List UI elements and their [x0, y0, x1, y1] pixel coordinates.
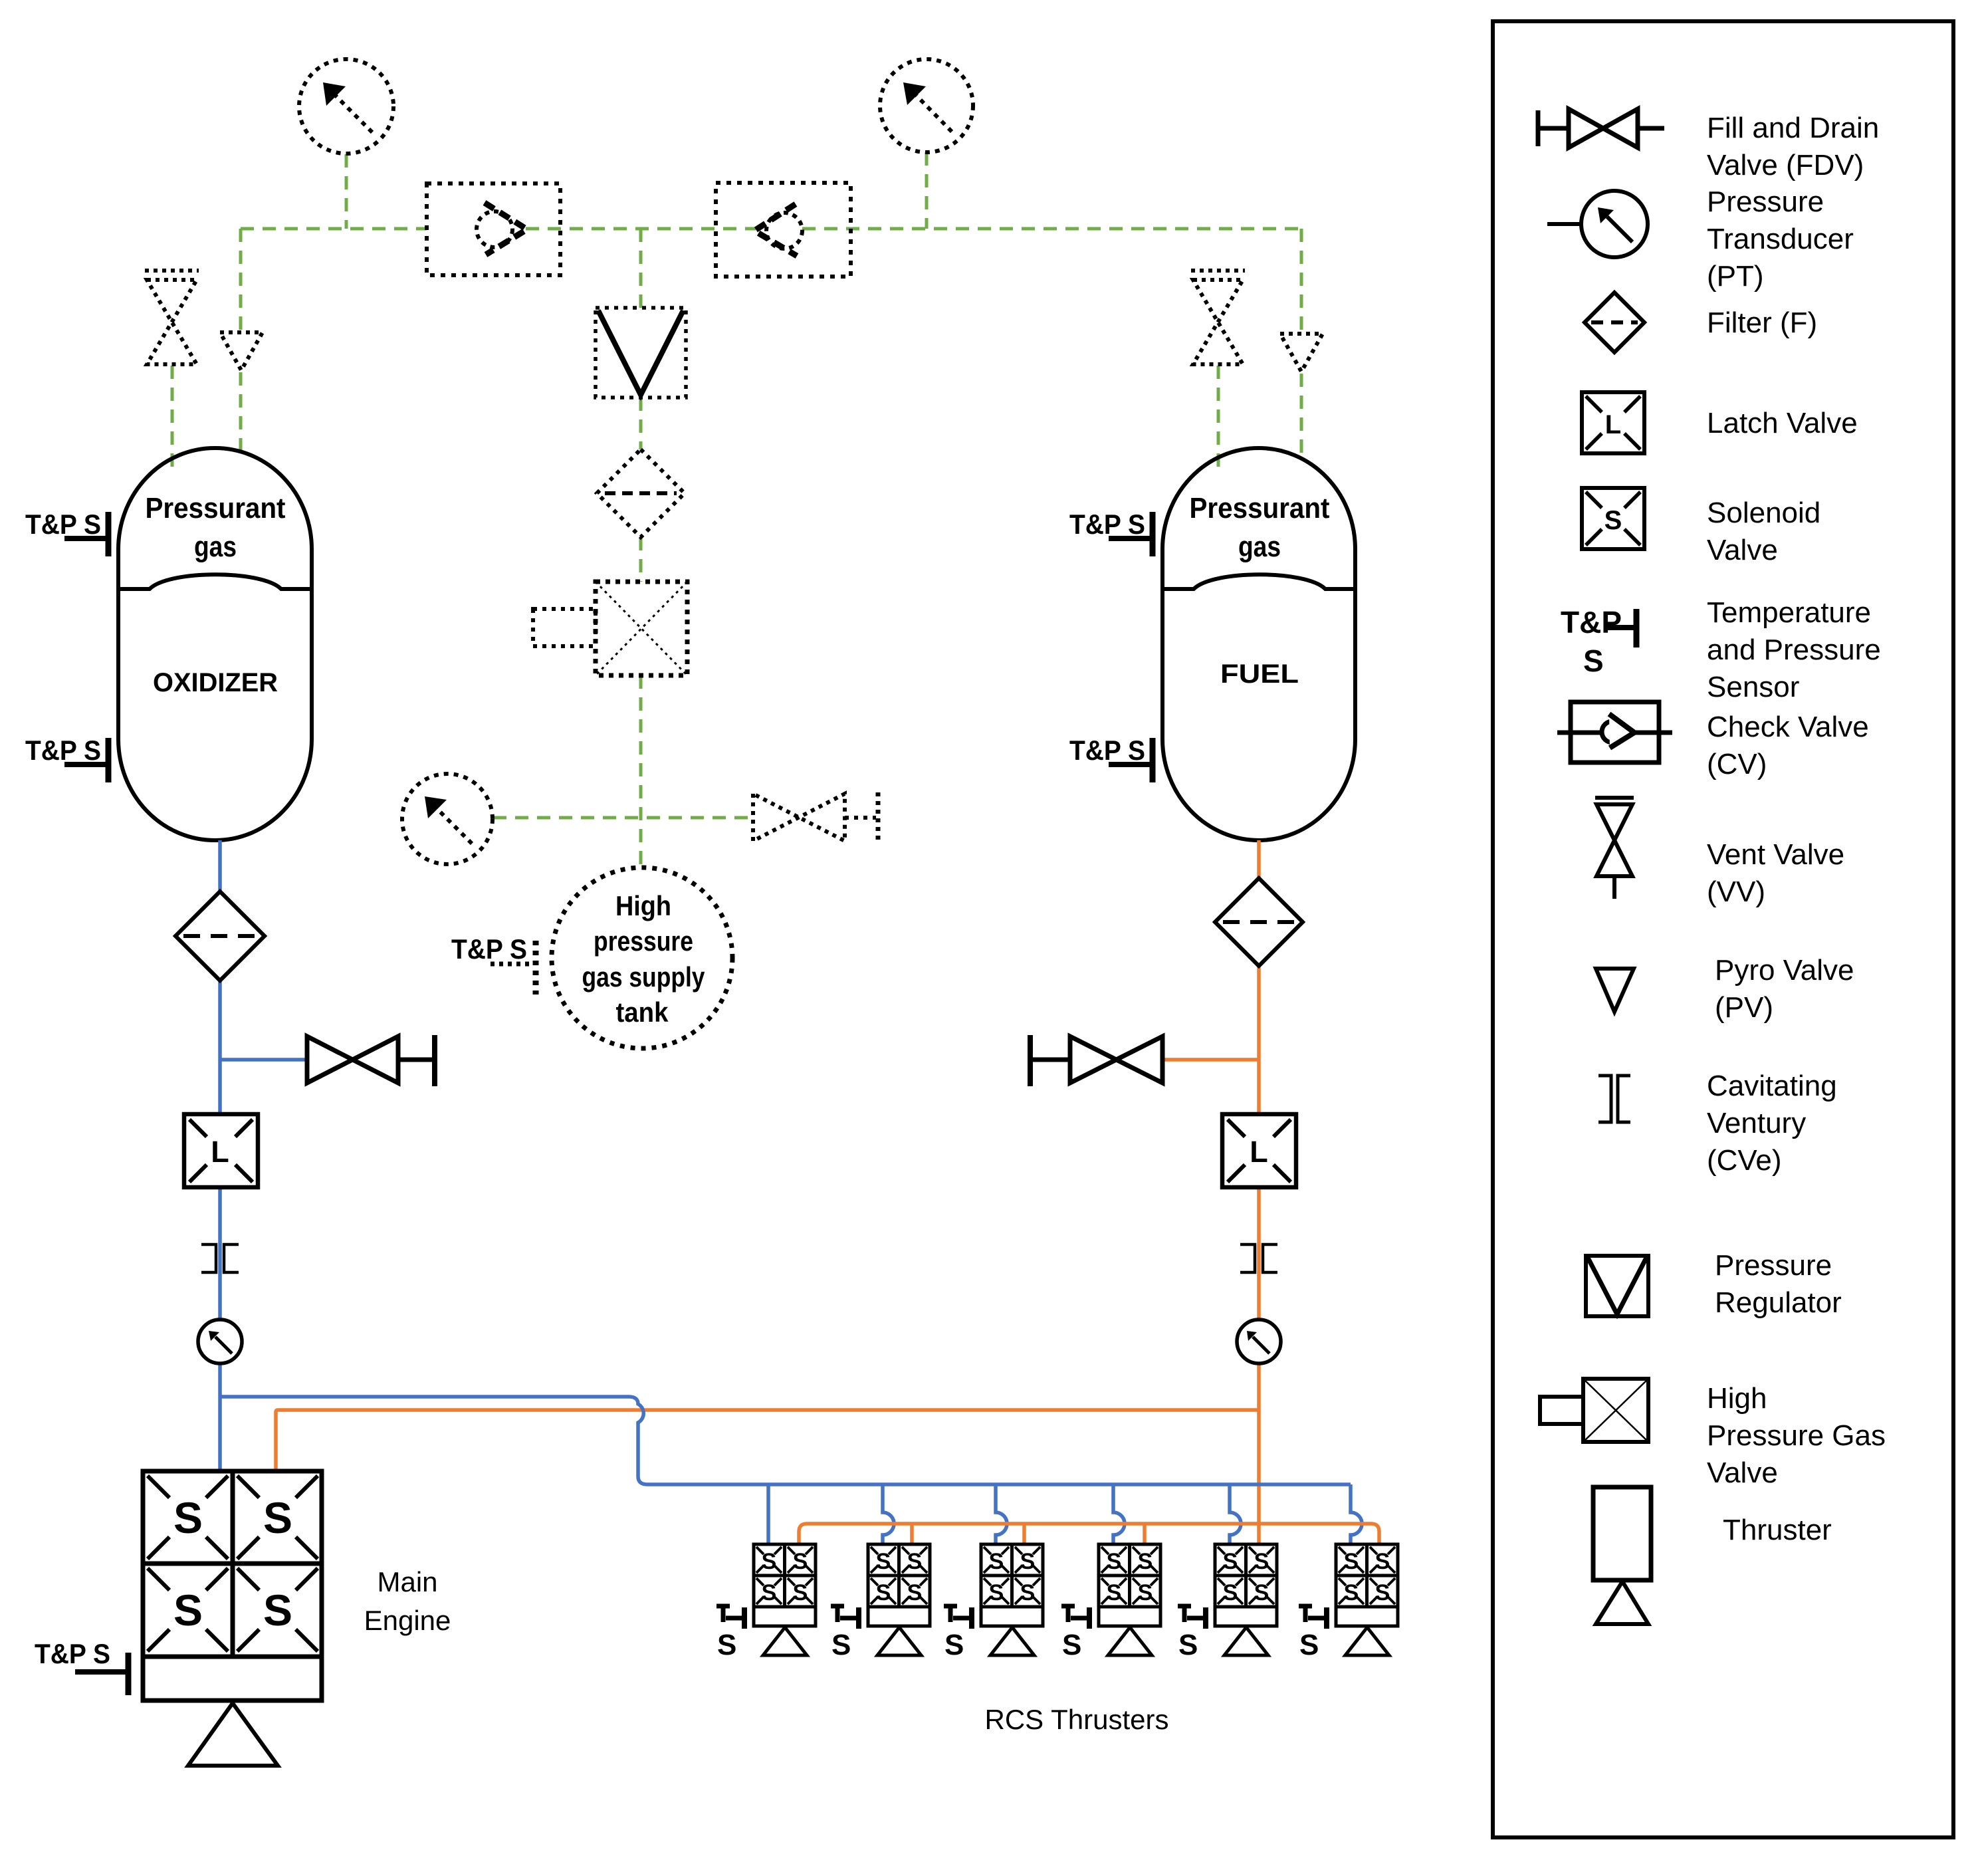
svg-text:Fill and Drain: Fill and Drain — [1707, 112, 1879, 144]
check valve CV1 (dotted box, arrow apex right) — [427, 183, 560, 275]
wire green filter F3 to high pressure gas valve — [639, 537, 643, 582]
high pressure gas supply tank (dotted circle) — [552, 868, 732, 1048]
svg-text:S: S — [793, 1580, 808, 1605]
legend symbol: pyro valve — [1596, 969, 1634, 1012]
svg-text:Main: Main — [377, 1566, 437, 1597]
svg-text:S: S — [989, 1580, 1004, 1605]
wire green HPGV down to supply tank — [639, 675, 643, 868]
wire green regulator to filter F3 — [639, 398, 643, 449]
wire orange manifold right elbow drop to cluster 6 — [1371, 1524, 1379, 1544]
svg-text:S: S — [907, 1580, 923, 1605]
TOPCOMP — [145, 59, 1323, 1048]
wire green left elbow down to pyro valve PV1 — [239, 229, 243, 330]
wire blue drop to thruster cluster 2 (hop over orange manifold) — [883, 1484, 894, 1544]
svg-text:T&P S: T&P S — [451, 933, 527, 965]
svg-text:Ventury: Ventury — [1707, 1107, 1806, 1139]
svg-text:S: S — [831, 1629, 851, 1661]
filter F1 (oxidizer) — [175, 891, 265, 981]
svg-text:(PV): (PV) — [1715, 991, 1773, 1024]
fill and drain valve FDV1 (oxidizer) — [307, 1035, 435, 1086]
svg-text:S: S — [1138, 1549, 1153, 1574]
T&P sensor cluster 4 — [1061, 1606, 1089, 1661]
svg-text:High: High — [1707, 1382, 1767, 1415]
svg-text:L: L — [1250, 1135, 1268, 1169]
svg-text:S: S — [876, 1580, 891, 1605]
latch valve L2 — [1222, 1114, 1296, 1187]
wire green PT1 drop — [345, 154, 348, 229]
wire orange drop to cluster 4 — [1143, 1524, 1147, 1544]
label: Main Engine — [364, 1566, 451, 1636]
svg-text:Pressurant: Pressurant — [1190, 492, 1330, 525]
high pressure gas valve (dotted box with X and stub) — [533, 582, 687, 675]
main engine lower plate — [143, 1657, 322, 1700]
svg-text:L: L — [1605, 410, 1621, 439]
legend text: Vent Valve (VV) — [1707, 838, 1844, 908]
svg-text:Latch Valve: Latch Valve — [1707, 407, 1858, 439]
cavitating venturi CVe2 — [1240, 1244, 1277, 1272]
svg-text:tank: tank — [616, 997, 669, 1028]
svg-text:S: S — [1254, 1580, 1269, 1605]
TANKS — [25, 448, 1355, 840]
svg-text:Filter (F): Filter (F) — [1707, 306, 1817, 339]
legend symbol: thruster — [1593, 1487, 1651, 1624]
wire blue drop to thruster cluster 6 (hop over orange manifold) — [1351, 1484, 1362, 1544]
T&P sensor cluster 1 — [716, 1606, 744, 1661]
wire orange filter F2 to latch valve L2 — [1257, 966, 1261, 1114]
main engine solenoid letters S — [173, 1493, 292, 1635]
svg-text:S: S — [263, 1585, 292, 1635]
legend symbol: check valve — [1557, 702, 1672, 762]
svg-text:Valve: Valve — [1707, 534, 1778, 566]
main engine solenoid corner marks cell bottom-left — [148, 1568, 228, 1651]
vent valve VV2 (dotted, above fuel tank) — [1191, 271, 1245, 364]
svg-text:S: S — [173, 1585, 203, 1635]
LEGEND — [1493, 21, 1953, 1837]
svg-text:gas: gas — [194, 530, 237, 563]
wire blue drop to thruster cluster 5 (hop over orange manifold) — [1230, 1484, 1241, 1544]
legend symbol: solenoid valve — [1582, 488, 1644, 549]
pressure transducer PT1 (dotted, top left) — [299, 59, 393, 154]
oxidizer tank shell — [118, 448, 312, 840]
legend border frame — [1493, 21, 1953, 1837]
svg-text:S: S — [1178, 1629, 1198, 1661]
svg-text:S: S — [173, 1493, 203, 1542]
svg-text:Thruster: Thruster — [1723, 1514, 1832, 1546]
legend symbol: cavitating venturi — [1598, 1076, 1630, 1122]
wire green PT2 drop — [925, 152, 929, 229]
main engine solenoid corner marks cell bottom-right — [237, 1568, 318, 1651]
fill and drain valve FDV2 (fuel) — [1030, 1035, 1162, 1086]
wire green supply-tank cross horizontal — [493, 816, 753, 820]
svg-text:S: S — [1254, 1549, 1269, 1574]
svg-text:Valve: Valve — [1707, 1457, 1778, 1489]
svg-text:Pyro Valve: Pyro Valve — [1715, 954, 1854, 987]
wire green vent VV2 to fuel tank — [1217, 366, 1220, 467]
wire green right elbow down to pyro valve PV2 — [1300, 229, 1303, 332]
T&P sensor fuel lower — [1069, 735, 1153, 782]
svg-text:Pressure: Pressure — [1707, 185, 1824, 218]
svg-text:L: L — [211, 1135, 229, 1169]
wire blue filter F1 to latch valve L1 — [218, 981, 222, 1114]
legend symbol: latch valve — [1582, 392, 1644, 453]
RCS thruster cluster 2 valve block — [868, 1544, 930, 1655]
legend symbol: pressure transducer — [1547, 191, 1648, 257]
legend text: Fill and Drain Valve (FDV) — [1707, 112, 1879, 181]
svg-text:Transducer: Transducer — [1707, 223, 1854, 255]
filter F3 (dotted diamond on pressurant line) — [597, 449, 685, 537]
main engine solenoid corner marks cell top-left — [148, 1476, 228, 1559]
svg-text:Sensor: Sensor — [1707, 671, 1799, 703]
legend text: Cavitating Ventury (CVe) — [1707, 1070, 1837, 1177]
svg-text:Cavitating: Cavitating — [1707, 1070, 1837, 1102]
wire green vent VV1 to oxidizer tank — [171, 366, 174, 467]
svg-text:Regulator: Regulator — [1715, 1286, 1842, 1319]
temperature and pressure sensor (dotted) on supply tank — [451, 933, 536, 995]
pressure transducer PT3 (dotted, near supply tank) — [402, 774, 493, 864]
legend text: Pressure Regulator — [1715, 1249, 1842, 1319]
svg-text:S: S — [1223, 1580, 1238, 1605]
RCS thruster cluster 1 valve block — [754, 1544, 816, 1655]
vent valve VV1 (dotted, above oxidizer tank) — [145, 271, 199, 364]
RCS thruster cluster 4 valve block — [1099, 1544, 1160, 1655]
cavitating venturi CVe1 — [201, 1244, 239, 1272]
svg-text:S: S — [263, 1493, 292, 1542]
svg-text:S: S — [876, 1549, 891, 1574]
svg-text:T&P S: T&P S — [25, 735, 101, 766]
svg-text:S: S — [1107, 1580, 1122, 1605]
label: Pressurant gas (oxidizer) — [146, 492, 286, 563]
wire orange branch from FDV2 — [1162, 1058, 1259, 1062]
svg-text:FUEL: FUEL — [1220, 659, 1299, 689]
T&P sensor cluster 6 — [1299, 1606, 1327, 1661]
svg-text:S: S — [1375, 1580, 1390, 1605]
latch valve L1 — [184, 1114, 258, 1187]
svg-text:T&P S: T&P S — [1069, 735, 1145, 766]
wire orange RCS manifold — [807, 1522, 1371, 1526]
svg-text:(CVe): (CVe) — [1707, 1144, 1781, 1177]
svg-text:S: S — [1138, 1580, 1153, 1605]
T&P sensor cluster 2 — [831, 1606, 859, 1661]
svg-text:pressure: pressure — [594, 925, 693, 957]
svg-text:Pressurant: Pressurant — [146, 492, 286, 525]
svg-text:S: S — [944, 1629, 964, 1661]
svg-text:and Pressure: and Pressure — [1707, 634, 1881, 666]
svg-text:Pressure Gas: Pressure Gas — [1707, 1419, 1886, 1452]
svg-text:S: S — [762, 1549, 777, 1574]
RCSCLUSTERS — [716, 1544, 1398, 1735]
main engine solenoid corner marks cell top-right — [237, 1476, 318, 1559]
wire green main horizontal middle segment — [526, 227, 756, 231]
svg-text:Solenoid: Solenoid — [1707, 497, 1820, 529]
svg-text:S: S — [762, 1580, 777, 1605]
T&P sensor ox upper — [25, 509, 108, 556]
legend text: Pyro Valve (PV) — [1715, 954, 1854, 1024]
legend text: High Pressure Gas Valve — [1707, 1382, 1886, 1489]
svg-text:S: S — [1223, 1549, 1238, 1574]
svg-text:S: S — [1604, 506, 1622, 535]
RCS thruster cluster 5 valve block — [1215, 1544, 1277, 1655]
wire blue PT4 down to engine and RCS branch — [218, 1363, 222, 1471]
svg-text:S: S — [1583, 644, 1604, 678]
svg-text:S: S — [1062, 1629, 1081, 1661]
svg-text:T&P S: T&P S — [25, 509, 101, 540]
wire orange drop to cluster 3 — [1022, 1524, 1026, 1544]
wire blue drop to thruster cluster 3 (hop over orange manifold) — [996, 1484, 1007, 1544]
RCSNET — [220, 1397, 1379, 1544]
legend symbol: pressure regulator — [1586, 1256, 1648, 1316]
fuel tank shell — [1162, 448, 1355, 840]
wire green regulator drop — [639, 229, 643, 308]
svg-text:S: S — [989, 1549, 1004, 1574]
wire blue RCS feed with hop over orange main — [220, 1397, 1351, 1484]
wire orange fuel tank to filter F2 — [1257, 840, 1261, 878]
svg-text:S: S — [1344, 1549, 1359, 1574]
legend symbol: vent valve — [1595, 798, 1634, 899]
svg-text:Vent Valve: Vent Valve — [1707, 838, 1844, 871]
svg-text:T&P S: T&P S — [35, 1638, 110, 1669]
T&P sensor main engine — [35, 1638, 128, 1695]
main engine block dividers — [143, 1471, 322, 1657]
filter F2 (fuel) — [1215, 878, 1303, 966]
legend symbol: high pressure gas valve — [1540, 1379, 1648, 1442]
svg-text:gas supply: gas supply — [582, 961, 706, 993]
svg-text:S: S — [907, 1549, 923, 1574]
fuel tank separator line — [1164, 574, 1355, 589]
wire orange latch L2 to PT5 — [1257, 1187, 1261, 1320]
wire orange main horizontal to engine — [276, 1410, 1259, 1471]
legend text: Solenoid Valve — [1707, 497, 1820, 566]
legend symbol: fill and drain valve — [1538, 109, 1664, 148]
svg-text:S: S — [793, 1549, 808, 1574]
wire green main horizontal left segment — [241, 227, 427, 231]
legend symbol: filter — [1585, 293, 1644, 352]
svg-text:(CV): (CV) — [1707, 748, 1767, 780]
svg-text:S: S — [1375, 1549, 1390, 1574]
label: Pressurant gas (fuel) — [1190, 492, 1330, 563]
wire orange manifold left elbow drop to cluster 1 — [799, 1524, 807, 1544]
main engine valve block outline — [143, 1471, 322, 1657]
wire blue drop to thruster cluster 4 (hop over orange manifold) — [1113, 1484, 1125, 1544]
wire blue branch to FDV1 — [220, 1058, 307, 1062]
OXBRANCH — [175, 840, 435, 1471]
svg-text:Pressure: Pressure — [1715, 1249, 1832, 1282]
svg-text:RCS Thrusters: RCS Thrusters — [985, 1704, 1169, 1735]
svg-text:T&P: T&P — [1561, 605, 1622, 640]
pressure transducer PT5 (fuel line) — [1237, 1320, 1281, 1363]
GREEN-NET — [172, 152, 1301, 868]
legend text: Temperature and Pressure Sensor — [1707, 596, 1881, 703]
wire green pyro PV2 to fuel tank — [1300, 374, 1303, 460]
wire blue latch L1 to PT4 — [218, 1187, 222, 1320]
svg-text:S: S — [717, 1629, 736, 1661]
svg-text:Temperature: Temperature — [1707, 596, 1871, 629]
svg-text:gas: gas — [1238, 530, 1281, 563]
svg-text:S: S — [1299, 1629, 1319, 1661]
wire blue drop to thruster cluster 1 — [766, 1484, 770, 1544]
pressure transducer PT2 (dotted, top middle-right) — [880, 59, 973, 152]
svg-text:S: S — [1344, 1580, 1359, 1605]
svg-text:S: S — [1020, 1549, 1036, 1574]
fill and drain valve FDV3 (dotted, right of supply cross) — [753, 792, 878, 842]
T&P sensor fuel upper — [1069, 509, 1153, 556]
RCS thruster cluster 6 valve block — [1336, 1544, 1398, 1655]
wire orange drop to cluster 2 — [910, 1524, 914, 1544]
legend text: Check Valve (CV) — [1707, 711, 1869, 780]
pyro valve PV2 (dotted, above fuel tank) — [1280, 334, 1323, 372]
wire green pyro PV1 to oxidizer tank — [239, 372, 243, 457]
pressure transducer PT4 (oxidizer line) — [198, 1320, 242, 1363]
svg-text:T&P S: T&P S — [1069, 509, 1145, 540]
svg-text:Check Valve: Check Valve — [1707, 711, 1869, 743]
oxidizer tank separator line — [120, 574, 310, 589]
svg-text:High: High — [615, 890, 671, 921]
pyro valve PV1 (dotted, above oxidizer tank) — [220, 332, 263, 370]
ENGINE — [35, 1471, 451, 1766]
svg-text:(PT): (PT) — [1707, 260, 1764, 293]
T&P sensor cluster 5 — [1178, 1606, 1206, 1661]
svg-text:S: S — [1107, 1549, 1122, 1574]
T&P sensor cluster 3 — [944, 1606, 972, 1661]
svg-text:Valve (FDV): Valve (FDV) — [1707, 149, 1864, 181]
FUELBRANCH — [276, 840, 1303, 1544]
label: High pressure gas supply tank — [582, 890, 706, 1028]
wire blue oxidizer tank to filter F1 — [218, 840, 222, 891]
pressure regulator (dotted box, solid V) — [596, 308, 686, 398]
svg-text:(VV): (VV) — [1707, 876, 1765, 908]
legend text: Pressure Transducer (PT) — [1707, 185, 1854, 293]
wire green main horizontal right segment — [802, 227, 1301, 231]
svg-text:S: S — [1020, 1580, 1036, 1605]
main engine nozzle — [188, 1703, 278, 1766]
RCS thruster cluster 3 valve block — [981, 1544, 1043, 1655]
wire orange PT5 down to RCS feed — [1257, 1363, 1261, 1544]
svg-text:OXIDIZER: OXIDIZER — [153, 668, 278, 697]
svg-text:Engine: Engine — [364, 1605, 451, 1636]
legend symbol: temperature and pressure sensor — [1561, 605, 1636, 678]
T&P sensor ox lower — [25, 735, 108, 782]
check valve CV2 (dotted box, arrow apex left) — [716, 183, 851, 277]
